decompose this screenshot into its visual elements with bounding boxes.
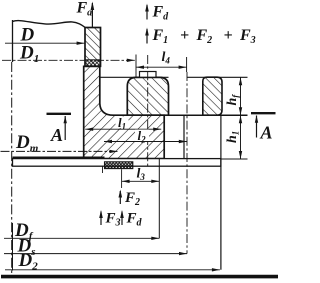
svg-text:A: A xyxy=(50,125,63,145)
svg-text:l4: l4 xyxy=(162,50,171,66)
svg-text:F2: F2 xyxy=(124,190,140,208)
svg-text:Fa: Fa xyxy=(76,0,93,19)
svg-text:Fd: Fd xyxy=(126,211,143,229)
svg-text:l3: l3 xyxy=(137,167,146,183)
svg-text:D1: D1 xyxy=(19,43,39,66)
svg-text:F1+F2+F3: F1+F2+F3 xyxy=(152,27,256,46)
svg-text:Fd: Fd xyxy=(152,4,170,23)
svg-text:F3: F3 xyxy=(105,211,121,229)
svg-text:h1: h1 xyxy=(225,131,241,143)
svg-text:Dm: Dm xyxy=(15,132,39,155)
svg-text:A: A xyxy=(260,123,273,143)
svg-text:hf: hf xyxy=(225,94,241,106)
